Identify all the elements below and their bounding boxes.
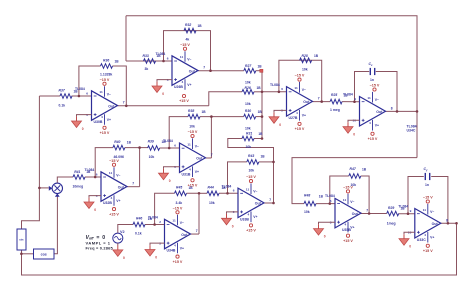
svg-text:V+: V+ [180,246,184,250]
svg-text:1B: 1B [314,54,319,58]
svg-text:6: 6 [96,172,98,176]
op-amp U33C [398,204,448,243]
svg-text:TL084: TL084 [270,83,280,87]
svg-text:1B: 1B [198,24,203,28]
wire junction to R30 [211,116,243,118]
wire sin box bottom feedback [22,223,457,275]
svg-text:4: 4 [110,196,112,200]
wire R27 to bus [256,70,262,72]
svg-text:4: 4 [369,121,371,125]
svg-text:4: 4 [174,244,176,248]
svg-text:10k: 10k [246,145,252,149]
wire U33C output [441,222,457,224]
svg-text:Out: Out [352,212,359,216]
svg-text:R40: R40 [114,140,120,144]
resistor R32 4k [184,23,202,41]
svg-text:R44: R44 [208,185,214,189]
svg-text:6: 6 [174,144,176,148]
ground U30B [72,117,84,131]
svg-text:U34B: U34B [167,249,176,253]
svg-text:V+: V+ [302,114,306,118]
junction U34C out fb [396,110,399,113]
svg-text:−15 V: −15 V [423,196,433,200]
voltage source V2 [113,230,125,243]
power -15 U27B [295,74,305,82]
wire R31 left jog [228,139,274,204]
power -15 U33C [423,196,433,204]
svg-text:V+: V+ [116,199,120,203]
junction U27B minus [278,91,281,94]
wire x1 down-left to R48 [292,158,417,204]
svg-text:6: 6 [330,199,332,203]
resistor R31 10k [242,132,263,150]
wire Cx feedback loop U34C [355,72,370,102]
wire summing bus vertical [261,71,263,139]
junction U26B out [209,69,212,72]
power -15 U33B [246,175,256,183]
svg-text:R38: R38 [188,109,194,113]
svg-text:1B: 1B [258,110,263,114]
svg-text:Out: Out [181,233,188,237]
op-amp U27B [270,82,320,121]
svg-text:10meg: 10meg [73,185,84,189]
svg-text:V−: V− [430,210,434,214]
svg-text:0: 0 [324,235,326,239]
svg-text:11: 11 [246,188,250,192]
svg-text:R26: R26 [245,86,251,90]
resistor R43 10k [247,154,265,173]
svg-text:+15 V: +15 V [173,260,183,264]
op-amp U32B [85,167,135,206]
ground V2 [113,246,125,260]
wire R45 feedback loop U34B [155,193,175,224]
svg-text:V−: V− [375,98,379,102]
wire R40 right junction to U32B out [125,148,140,187]
svg-text:R39: R39 [148,140,154,144]
wire R43 feedback loop U33B [228,162,247,193]
block cos [34,249,55,259]
svg-text:Out: Out [255,202,262,206]
svg-text:−15 V: −15 V [343,185,353,189]
svg-text:R46: R46 [136,216,142,220]
svg-text:10k: 10k [245,102,251,106]
wire R36 feedback loop U30B [79,66,101,96]
wire Cx right to U34C out [376,72,397,112]
resistor R36 1.1328k [100,58,119,76]
multiplier [49,183,63,197]
svg-text:Out: Out [376,110,383,114]
wire R31 row to bus [254,138,262,140]
resistor R28 10k [300,54,319,72]
junction x node [38,187,41,190]
svg-text:10k: 10k [302,68,308,72]
svg-text:10k: 10k [249,169,255,173]
power -15 U31B [188,130,198,138]
junction U33B minus [226,192,229,195]
capacitor Cy 1n [424,167,430,187]
svg-text:7: 7 [211,153,213,157]
wire R44 to U33B minus [219,192,238,194]
capacitor Cx 1n [369,62,375,82]
svg-text:V+: V+ [187,83,191,87]
junction R43 fb [272,161,275,164]
svg-text:11: 11 [294,86,298,90]
power -15 U35B [343,185,353,193]
power +15 U26B [179,94,189,103]
power -15 U34B [173,206,183,214]
resistor R29 1meg [387,206,406,225]
wire Cy feedback loop U33C [408,177,424,214]
resistor R30 10k [244,109,263,130]
svg-text:−15 V: −15 V [246,175,256,179]
svg-text:0.1k: 0.1k [135,232,142,236]
junction U33B out [272,202,275,205]
junction U32B minus [94,176,97,179]
svg-text:Out: Out [118,185,125,189]
svg-text:0: 0 [94,208,96,212]
svg-text:+15 V: +15 V [179,99,189,103]
wire bus to U27B minus [262,91,287,93]
terminal R27 right [260,69,263,72]
resistor R38 10k [188,109,206,128]
svg-text:R28: R28 [302,54,308,58]
svg-text:1B: 1B [222,186,227,190]
svg-text:+15 V: +15 V [246,229,256,233]
op-amp U31B [163,138,213,177]
svg-text:V−: V− [195,145,199,149]
svg-text:1B: 1B [258,132,263,136]
svg-text:U33C: U33C [417,238,426,242]
svg-text:7: 7 [203,66,205,70]
wire U35B plus to gnd [319,222,336,224]
svg-text:V2: V2 [120,230,125,234]
junction U34B fb [198,192,201,195]
power +15 U27B [295,122,305,131]
svg-text:+15 V: +15 V [109,212,119,216]
ground U27B [269,112,281,126]
svg-text:R36: R36 [103,58,109,62]
power +15 U34C [368,132,378,141]
svg-text:1B: 1B [258,65,263,69]
svg-text:R37: R37 [59,89,66,93]
svg-text:1B: 1B [257,86,262,90]
svg-text:10k: 10k [149,155,155,159]
block sin [17,229,26,250]
svg-text:U30B: U30B [94,120,103,124]
junction U35B out [368,212,371,215]
svg-text:V+: V+ [253,215,257,219]
svg-text:U33B: U33B [240,217,249,221]
svg-text:−15 V: −15 V [370,84,380,88]
svg-text:1n: 1n [370,78,374,82]
resistor R39 10k [148,140,167,159]
svg-text:8: 8 [446,218,448,222]
svg-text:R47: R47 [350,167,357,171]
svg-text:−15 V: −15 V [109,159,119,163]
svg-text:R27: R27 [245,64,252,68]
wire U34B output [191,233,200,235]
junction x1 node [416,110,419,113]
svg-text:1B: 1B [344,94,349,98]
ground U26B [152,82,164,96]
op-amp U33B [222,184,272,223]
svg-text:4: 4 [344,223,346,227]
svg-text:Freq = 0.2865: Freq = 0.2865 [86,245,114,250]
wire R25 row U27B out [313,101,331,103]
resistor R46 0.1k [133,216,153,235]
svg-text:U32B: U32B [103,201,112,205]
label TL084 U34C [407,125,417,129]
power -15 U26B [180,43,190,51]
wire R44 row [199,192,207,194]
svg-text:Out: Out [432,222,439,226]
op-amp U34B [148,215,198,254]
svg-text:4: 4 [101,115,103,119]
op-amp U35B [325,194,368,233]
svg-text:11: 11 [99,90,103,94]
junction U35B minus [329,202,332,205]
wire R39 to U31B minus [160,147,180,149]
svg-text:Out: Out [189,69,196,73]
svg-text:0: 0 [162,92,164,96]
svg-text:+15 V: +15 V [343,239,353,243]
wire top feedback x1 net [126,16,417,158]
wire U27B plus to gnd [274,110,287,112]
svg-text:3.4k: 3.4k [176,201,183,205]
wire R48 to U35B minus [316,203,335,205]
svg-text:3k: 3k [145,67,149,71]
svg-text:10k: 10k [209,201,215,205]
wire U33B output [264,202,274,204]
svg-text:V−: V− [116,173,120,177]
wire R28 feedback loop U27B [279,60,322,101]
svg-text:+15 V: +15 V [188,184,198,188]
wire R47 right to U35B out [361,176,369,214]
wire U30B output [118,105,209,107]
wire R46 to U34B minus [145,224,165,226]
wire node to multiplier input [39,187,48,189]
wire U33B plus to gnd [227,212,239,214]
svg-text:1B: 1B [401,207,406,211]
svg-text:Out: Out [196,157,203,161]
svg-text:cos: cos [41,252,47,256]
svg-text:TL084: TL084 [407,125,417,129]
power +15 U31B [188,179,198,188]
svg-text:1 meg: 1 meg [330,108,340,112]
svg-text:4: 4 [181,80,183,84]
svg-text:R41: R41 [74,170,80,174]
wire R29 to U33C minus [399,213,415,215]
wire R25 to U34C minus [342,101,359,103]
svg-text:10k: 10k [304,210,310,214]
svg-text:R45: R45 [176,185,182,189]
svg-text:1B: 1B [86,170,91,174]
junction bus R30 [261,115,264,118]
svg-text:11: 11 [109,171,113,175]
svg-text:0: 0 [123,256,125,260]
svg-text:1B: 1B [157,54,162,58]
junction U30B minus [78,95,81,98]
svg-text:−15 V: −15 V [295,74,305,78]
svg-text:1meg: 1meg [387,221,396,225]
power -15 U32B [109,159,119,167]
resistor R27 10k [244,64,262,85]
wire R32 feedback loop U26B [164,31,211,71]
power +15 U35B [343,234,353,243]
junction U34B minus [153,223,156,226]
wire R26 to bus [254,91,262,93]
svg-text:V−: V− [180,221,184,225]
svg-text:V−: V− [107,92,111,96]
svg-text:11: 11 [180,55,184,59]
resistor R40 46.096 [113,140,132,159]
ground U32B [84,198,96,212]
svg-text:V−: V− [187,57,191,61]
wire R37 to U30B minus [72,95,92,97]
svg-text:−15 V: −15 V [180,43,190,47]
power +15 U32B [109,208,119,217]
svg-text:0: 0 [169,179,171,183]
wire U31B output [206,157,212,159]
wire U26B output to R27 [198,70,244,72]
resistor R25 1 meg [330,93,348,112]
svg-text:4: 4 [296,111,298,115]
svg-text:V−: V− [350,200,354,204]
svg-text:U26B: U26B [174,85,183,89]
ground U31B [159,169,171,183]
wire R37 row [39,95,60,97]
svg-text:1n: 1n [425,183,429,187]
svg-text:0: 0 [82,127,84,131]
svg-text:−15 V: −15 V [173,206,183,210]
svg-text:10k: 10k [189,125,195,129]
svg-text:10k: 10k [245,81,251,85]
wire R43 right to vertical [259,161,274,163]
svg-text:4k: 4k [186,38,190,42]
svg-text:R31: R31 [246,132,252,136]
svg-text:0.1k: 0.1k [59,104,66,108]
wire left vertical x-node [22,96,40,229]
svg-text:V+: V+ [375,124,379,128]
svg-text:U34C: U34C [407,129,416,133]
svg-text:4: 4 [247,212,249,216]
ground U35B [314,224,326,238]
svg-text:7: 7 [366,208,368,212]
resistor R41 10meg [73,170,91,189]
wire U34C plus to gnd [348,120,360,122]
svg-text:0: 0 [155,256,157,260]
ground U33B [222,214,234,228]
junction U33C out [455,222,458,225]
svg-text:R48: R48 [304,194,310,198]
svg-text:1B: 1B [162,140,167,144]
op-amp U30B [75,86,125,125]
wire U33C plus to gnd [404,232,415,234]
power +15 U33B [246,224,256,233]
wire V2 to gnd [117,243,119,245]
svg-text:7: 7 [123,101,125,105]
svg-text:7: 7 [318,97,320,101]
wire R30 to bus [256,116,262,118]
svg-text:V−: V− [253,190,257,194]
resistor R47 10k [349,167,367,187]
junction sin/cos node [20,253,23,256]
junction bus R26 [261,91,264,94]
svg-text:9: 9 [410,209,412,213]
wire U35B output to R29 [361,213,387,215]
wire junction to R39 [140,147,148,149]
svg-text:4: 4 [424,233,426,237]
power -15 U30B [100,78,110,86]
junction U33C fb [447,222,450,225]
svg-text:1.1328k: 1.1328k [100,73,112,77]
wire U34C output to x1 node [386,110,418,112]
wire U31B plus to gnd [164,167,180,169]
svg-text:11: 11 [172,219,176,223]
wire top-left drop to R33 [125,16,127,61]
ground U33C [399,234,411,248]
power +15 U33C [423,244,433,253]
svg-text:V−: V− [302,88,306,92]
resistor R45 3.4k [175,185,194,205]
svg-text:R29: R29 [388,206,394,210]
svg-text:−15 V: −15 V [188,130,198,134]
resistor R48 10k [304,194,324,215]
svg-text:1B: 1B [362,167,367,171]
svg-text:7: 7 [196,229,198,233]
junction U32B out [138,146,141,149]
svg-text:1B: 1B [74,90,79,94]
resistor R26 10k [242,86,261,106]
svg-text:1B: 1B [261,154,266,158]
wire V2 to R46 [118,225,133,234]
svg-text:8: 8 [391,106,393,110]
svg-text:Out: Out [303,100,310,104]
wire R33 row [126,60,172,62]
svg-text:1B: 1B [319,194,324,198]
svg-text:1B: 1B [115,60,120,64]
resistor R44 10k [207,185,226,205]
svg-text:R30: R30 [245,109,251,113]
svg-text:0: 0 [409,245,411,249]
svg-text:1B: 1B [148,217,153,221]
svg-text:+15 V: +15 V [423,249,433,253]
wire multiplier out to R41 [57,177,73,183]
junction U33C minus [407,212,410,215]
svg-text:U27B: U27B [289,116,298,120]
svg-text:R33: R33 [143,54,149,58]
label V2 params [86,235,114,251]
wire U32B plus to gnd [89,196,101,198]
svg-text:9: 9 [354,97,356,101]
wire R45 junction to U34B out [187,193,200,234]
svg-text:0: 0 [232,224,234,228]
power +15 U34B [173,255,183,264]
svg-text:R32: R32 [185,23,191,27]
resistor R37 0.1k [59,89,79,108]
wire R36 right to U30B out [113,66,127,106]
junction U30B out/R36 [125,105,128,108]
wire U34B plus to gnd [150,243,165,245]
power -15 U34C [370,84,380,92]
svg-text:7: 7 [269,198,271,202]
junction U34C minus [353,100,356,103]
svg-text:V+: V+ [107,118,111,122]
junction U31B minus [168,147,171,150]
wire R38 to junction [200,117,211,158]
svg-text:+15 V: +15 V [295,127,305,131]
op-amp U34C [343,92,416,133]
